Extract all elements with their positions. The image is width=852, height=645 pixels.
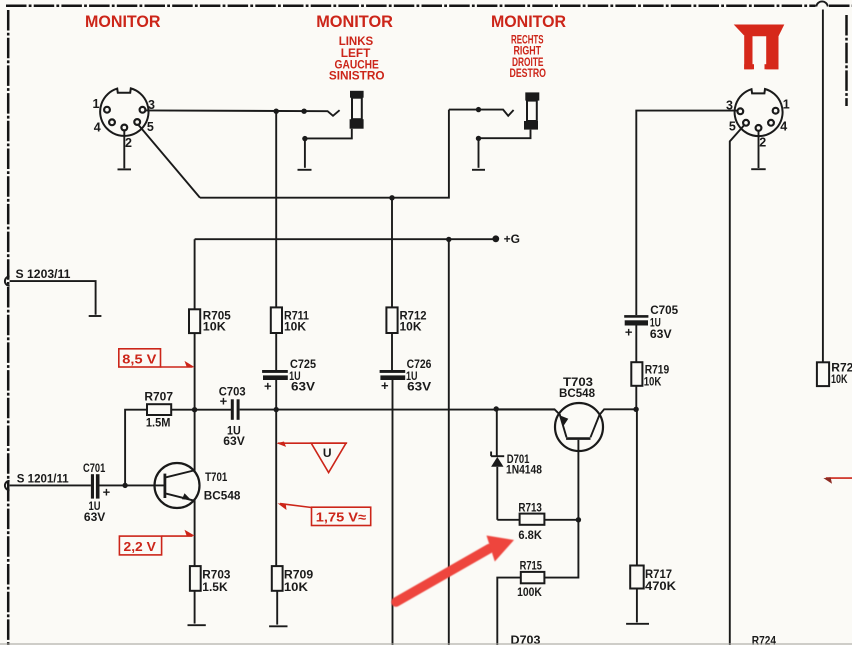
pin 4 <box>109 119 115 125</box>
wire C725 to main line <box>275 380 277 410</box>
speaker icon <box>734 25 785 70</box>
ground (DIN1 pin 2) <box>118 168 132 170</box>
resistor R712 <box>386 198 426 370</box>
svg-text:1,75 V≈: 1,75 V≈ <box>316 510 366 525</box>
wire T703 base to R715 <box>544 520 578 578</box>
svg-text:10K: 10K <box>644 374 662 388</box>
pin 4 <box>768 120 774 126</box>
node R713 / T703 base <box>576 517 581 522</box>
svg-text:5: 5 <box>729 120 736 134</box>
svg-text:BC548: BC548 <box>559 386 595 400</box>
svg-text:63V: 63V <box>407 380 431 394</box>
wire C726 down to edge <box>392 380 394 645</box>
svg-text:+: + <box>103 484 111 499</box>
ground (R709) <box>269 625 287 627</box>
svg-text:470K: 470K <box>645 579 676 593</box>
wire S1201 to C701 <box>10 484 91 486</box>
wire main line left segment <box>195 409 231 411</box>
wire DIN2 pin5 down <box>730 125 745 645</box>
wire DIN2 pin2 to ground <box>758 131 760 168</box>
resistor R703 <box>190 566 231 624</box>
svg-text:10K: 10K <box>831 372 848 386</box>
voltage 8,5 V <box>119 349 195 367</box>
svg-text:10K: 10K <box>203 320 226 334</box>
node C701/R707 junction <box>122 483 127 488</box>
pin 5 <box>134 119 140 125</box>
capacitor C701 <box>83 461 111 524</box>
wire +G rail <box>195 238 494 240</box>
wire jack2 sleeve down <box>478 138 480 167</box>
capacitor C705 <box>624 303 678 341</box>
terminal +G <box>492 235 499 242</box>
resistor R719 <box>631 326 669 410</box>
svg-text:63V: 63V <box>291 380 315 394</box>
wire jack1 sleeve down <box>304 139 306 168</box>
svg-text:T701: T701 <box>205 470 227 484</box>
border top <box>6 5 816 8</box>
node jack2 switch junction <box>476 107 481 112</box>
voltage 1,75 V <box>278 503 371 525</box>
terminal bar S1203 <box>89 315 102 317</box>
resistor R705 <box>189 239 231 410</box>
jack socket MONITOR RECHTS <box>524 92 539 129</box>
node main/D701 <box>494 406 499 411</box>
wire C701 to T701 base <box>100 484 165 486</box>
ground (jack2) <box>472 169 485 171</box>
svg-text:5: 5 <box>147 120 154 134</box>
node +G branch <box>446 237 451 242</box>
ground (jack1) <box>298 169 312 171</box>
svg-text:4: 4 <box>94 121 101 135</box>
svg-text:2,2 V: 2,2 V <box>124 539 157 554</box>
svg-text:MONITOR: MONITOR <box>85 13 161 31</box>
wire S1203 stub <box>10 281 96 315</box>
svg-text:C703: C703 <box>219 385 246 399</box>
svg-text:BC548: BC548 <box>204 489 241 503</box>
node main line / R705 <box>192 407 197 412</box>
svg-text:LINKS: LINKS <box>339 36 374 48</box>
ground (R703) <box>188 624 206 626</box>
svg-text:MONITOR: MONITOR <box>491 13 566 31</box>
svg-text:U: U <box>323 446 332 460</box>
svg-text:1.5K: 1.5K <box>202 580 228 594</box>
pin 2 <box>756 125 762 131</box>
svg-text:10K: 10K <box>284 580 308 594</box>
wire jack2 switch contact <box>449 110 514 116</box>
red measurement arrow (right) <box>823 477 852 484</box>
resistor R709 <box>272 410 314 625</box>
wire DIN1 pin2 to ground <box>123 131 125 169</box>
svg-text:C701: C701 <box>83 461 106 475</box>
node jack1 tip junction <box>274 109 279 114</box>
resistor R715 <box>497 558 544 645</box>
DIN connector socket (right, 5-pin) <box>726 89 790 150</box>
ground (R717) <box>626 623 649 625</box>
pin 2 <box>121 125 127 131</box>
pin 1 <box>104 107 110 113</box>
wire jack2 sleeve <box>479 130 531 139</box>
scan edge shadow (bottom) <box>0 643 852 645</box>
border left <box>7 10 10 645</box>
triangle U marker <box>277 442 348 473</box>
svg-text:RIGHT: RIGHT <box>514 46 542 58</box>
wire +G branch down <box>448 239 450 645</box>
svg-text:S 1203/11: S 1203/11 <box>16 269 72 281</box>
capacitor C726 <box>380 357 432 394</box>
wire DIN1 pin3 to jack1 switch <box>145 110 339 116</box>
svg-text:+: + <box>381 378 389 393</box>
svg-text:MONITOR: MONITOR <box>316 13 393 31</box>
svg-text:R707: R707 <box>144 389 173 403</box>
wire main signal line <box>240 409 555 411</box>
wire jack1 sleeve to ground node <box>305 129 352 139</box>
node T703 collector <box>633 407 638 412</box>
connector S 1201/11 <box>5 474 69 491</box>
svg-text:+: + <box>625 325 633 340</box>
voltage 2,2 V <box>119 530 194 555</box>
svg-text:63V: 63V <box>223 434 245 448</box>
border right <box>845 15 848 106</box>
svg-text:+: + <box>264 378 272 393</box>
jack socket MONITOR LINKS <box>350 91 364 129</box>
node jack1 sleeve junction <box>302 136 307 141</box>
resistor R707 <box>125 389 195 485</box>
border bump (wire pass-through) <box>816 1 828 6</box>
DIN connector socket (left, 5-pin) <box>93 88 156 149</box>
node jack2 sleeve junction <box>476 136 481 141</box>
svg-text:LEFT: LEFT <box>341 48 371 60</box>
node main/C725 <box>274 407 279 412</box>
svg-text:1: 1 <box>783 97 790 111</box>
resistor R717 <box>630 409 676 622</box>
svg-text:63V: 63V <box>84 510 105 524</box>
resistor R711 <box>271 111 309 370</box>
transistor T703 <box>496 375 636 520</box>
wire net pin5 to jack2 <box>200 110 449 198</box>
transistor T701 <box>155 410 241 566</box>
svg-text:10K: 10K <box>284 320 306 334</box>
svg-text:2: 2 <box>759 136 766 150</box>
svg-text:8,5 V: 8,5 V <box>122 351 156 366</box>
svg-text:2: 2 <box>125 136 132 150</box>
ground (DIN2 pin 2) <box>751 168 766 170</box>
resistor R721 <box>817 361 852 387</box>
svg-text:100K: 100K <box>517 585 542 599</box>
svg-text:+G: +G <box>504 232 520 246</box>
pin 3 <box>737 108 743 114</box>
wire R721 net from border <box>822 10 824 363</box>
svg-text:S 1201/11: S 1201/11 <box>17 474 69 486</box>
node R712 branch <box>389 195 394 200</box>
capacitor C725 <box>262 357 316 394</box>
svg-text:63V: 63V <box>650 327 672 341</box>
svg-text:R713: R713 <box>518 500 542 514</box>
pin 1 <box>773 108 779 114</box>
pin 5 <box>743 120 749 126</box>
connector S 1203/11 <box>5 269 71 286</box>
svg-text:4: 4 <box>780 120 787 134</box>
pin 3 <box>140 107 146 113</box>
annotation arrow (big red) <box>396 536 514 603</box>
svg-text:10K: 10K <box>400 320 422 334</box>
svg-text:GAUCHE: GAUCHE <box>335 59 380 71</box>
resistor R713 <box>497 500 578 542</box>
capacitor C703 <box>219 385 246 449</box>
wire DIN2 pin3 to C705 <box>636 111 737 315</box>
svg-text:1.5M: 1.5M <box>146 416 171 430</box>
diode D701 <box>491 409 542 520</box>
svg-text:R715: R715 <box>520 558 543 572</box>
svg-text:DESTRO: DESTRO <box>510 68 547 80</box>
wire DIN1 pin5 diagonal <box>139 125 200 198</box>
node jack1 switch junction <box>301 109 306 114</box>
svg-text:1: 1 <box>93 97 100 111</box>
svg-text:1N4148: 1N4148 <box>506 463 542 477</box>
svg-text:6.8K: 6.8K <box>518 528 542 542</box>
svg-text:SINISTRO: SINISTRO <box>329 71 385 83</box>
